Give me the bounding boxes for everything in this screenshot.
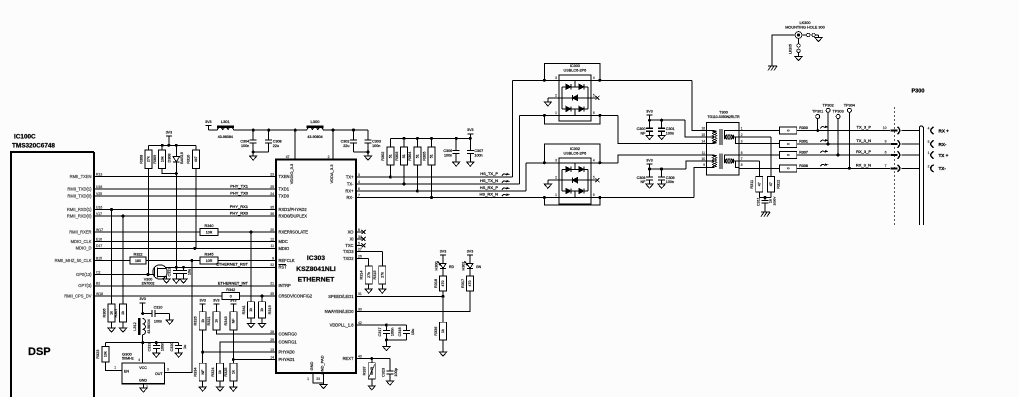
capacitor C317 100n — [378, 325, 395, 340]
svg-text:R301: R301 — [799, 140, 808, 144]
svg-text:35: 35 — [270, 205, 274, 209]
ground below GND_PAD — [320, 385, 327, 389]
svg-text:R311: R311 — [750, 180, 754, 189]
port arrow RX_3_N — [891, 165, 920, 172]
svg-text:32: 32 — [270, 263, 274, 267]
svg-text:C313: C313 — [168, 267, 172, 276]
svg-text:RMII_TXEN: RMII_TXEN — [70, 174, 92, 179]
svg-text:TXD0: TXD0 — [279, 193, 290, 198]
svg-text:10u: 10u — [411, 329, 415, 335]
port arrow RX_3_P — [891, 151, 920, 158]
port arrow TX_3_N — [891, 140, 920, 147]
resistor R309 10k — [153, 145, 166, 168]
svg-text:7: 7 — [741, 157, 743, 161]
svg-text:GND: GND — [139, 379, 147, 383]
svg-text:CONFIG1: CONFIG1 — [279, 339, 298, 344]
svg-text:ETHERNET_RST: ETHERNET_RST — [216, 261, 248, 266]
inductor L312 — [133, 318, 151, 344]
ground below C313 — [173, 279, 180, 283]
svg-text:51: 51 — [430, 154, 434, 158]
earth ground below C311 — [761, 212, 770, 217]
svg-text:27k: 27k — [367, 272, 371, 278]
svg-text:MDC: MDC — [279, 239, 288, 244]
wire R302 to TX+ — [389, 165, 392, 178]
svg-text:100n: 100n — [666, 131, 674, 135]
svg-text:10: 10 — [701, 157, 705, 161]
svg-text:R317: R317 — [461, 279, 465, 288]
svg-text:RMII_TXD(0): RMII_TXD(0) — [67, 193, 92, 198]
svg-text:SPEED/LED1: SPEED/LED1 — [328, 294, 354, 299]
resistor R314 27k — [360, 266, 373, 284]
wire R305 to RX- — [430, 165, 433, 199]
wire PHYAD0 row — [203, 351, 276, 353]
svg-text:MDIO: MDIO — [279, 246, 290, 251]
svg-text:RMII_MHZ_50_CLK: RMII_MHZ_50_CLK — [55, 258, 92, 263]
ground below C320 — [175, 353, 182, 357]
ground below G300 — [140, 388, 147, 392]
wire cap join + ground C302 C303 — [354, 151, 372, 161]
svg-text:1k: 1k — [260, 308, 264, 312]
wire G300 GND — [143, 384, 148, 389]
svg-text:21: 21 — [270, 282, 274, 286]
svg-text:47: 47 — [769, 182, 773, 186]
wire MDIO_D — [94, 247, 276, 250]
svg-text:10R: 10R — [206, 230, 213, 234]
svg-text:0: 0 — [786, 167, 790, 169]
LED H301 GN — [462, 261, 482, 271]
svg-text:R323: R323 — [96, 350, 100, 359]
svg-text:L300: L300 — [311, 119, 321, 124]
test point TP304 — [844, 103, 855, 168]
resistor R311 47 — [750, 177, 763, 193]
wire RX_N to T300 pin9 — [544, 167, 708, 197]
svg-text:470: 470 — [468, 280, 472, 286]
svg-text:R319: R319 — [268, 305, 272, 314]
svg-text:RX_3_N: RX_3_N — [856, 162, 871, 167]
svg-text:GN: GN — [476, 265, 482, 269]
svg-text:C311: C311 — [757, 197, 761, 206]
svg-text:36: 36 — [270, 212, 274, 216]
svg-text:C302: C302 — [341, 140, 350, 144]
svg-text:33: 33 — [316, 377, 320, 381]
capacitor C308 22u — [265, 130, 281, 152]
svg-text:VDDA_3.3: VDDA_3.3 — [329, 164, 334, 184]
svg-text:51: 51 — [416, 154, 420, 158]
wire RMII_RXER — [94, 231, 276, 234]
wire RX_P to T300 pin11 — [526, 155, 708, 163]
svg-text:43-98004: 43-98004 — [147, 319, 151, 333]
svg-text:5: 5 — [358, 241, 360, 245]
transistor V300 2N7002 — [142, 265, 168, 286]
svg-text:100n: 100n — [474, 153, 482, 157]
svg-text:26: 26 — [358, 254, 362, 258]
svg-text:TG110-S050N2RLTR: TG110-S050N2RLTR — [707, 115, 740, 119]
svg-text:100n: 100n — [372, 144, 380, 148]
capacitor C303 100n — [365, 130, 381, 152]
svg-text:E16: E16 — [96, 237, 102, 241]
wire PHYAD1 row — [233, 359, 276, 361]
svg-text:L301: L301 — [221, 119, 231, 124]
wire row RX_3_N — [797, 162, 890, 170]
svg-text:C300: C300 — [637, 127, 646, 131]
svg-text:2: 2 — [741, 133, 743, 137]
capacitor C308 NF — [637, 169, 653, 184]
svg-text:REFCLK: REFCLK — [279, 258, 295, 263]
svg-text:TXC: TXC — [345, 243, 353, 248]
svg-text:C303: C303 — [372, 140, 381, 144]
svg-text:C301: C301 — [666, 127, 675, 131]
wire T300 pin8 to R308 — [739, 167, 779, 168]
resistor R324 1k — [211, 363, 224, 381]
svg-text:1: 1 — [114, 366, 116, 370]
svg-text:TXEN: TXEN — [279, 174, 290, 179]
wire HS_TX_N — [356, 115, 520, 184]
svg-text:PHY_TX1: PHY_TX1 — [230, 184, 249, 189]
wire R303 to TX- — [403, 165, 406, 185]
svg-text:NF: NF — [640, 131, 646, 135]
svg-text:R322: R322 — [133, 253, 142, 257]
contact RX- — [928, 140, 947, 148]
wire NWAYEN/LED0 row — [356, 291, 470, 312]
svg-text:6: 6 — [593, 193, 595, 197]
svg-text:RXER/ISOLATE: RXER/ISOLATE — [279, 229, 309, 234]
svg-text:TXD2: TXD2 — [343, 256, 354, 261]
wire VDDA riser — [332, 130, 334, 160]
svg-text:R300: R300 — [799, 126, 808, 130]
svg-text:10u: 10u — [188, 269, 192, 275]
resistor R336 1k — [434, 296, 447, 340]
svg-text:C319: C319 — [148, 342, 152, 351]
svg-text:5: 5 — [593, 176, 595, 180]
svg-text:R302: R302 — [381, 152, 385, 161]
capacitor C320 1u — [170, 342, 187, 353]
svg-text:C307: C307 — [474, 149, 483, 153]
svg-text:5: 5 — [593, 93, 595, 97]
wire center tap rail top — [650, 119, 708, 137]
svg-text:C323: C323 — [381, 368, 385, 377]
svg-text:C310: C310 — [154, 306, 163, 310]
svg-text:TP302: TP302 — [823, 103, 834, 107]
svg-text:3V3: 3V3 — [166, 130, 172, 134]
wire G300 OUT to REFCLK net — [165, 261, 192, 373]
svg-text:3V3: 3V3 — [440, 249, 446, 253]
capacitor C319 100n — [148, 342, 165, 353]
ground below C308 — [646, 184, 653, 188]
svg-text:R308: R308 — [799, 164, 808, 168]
svg-text:35: 35 — [270, 292, 274, 296]
ground below C323 — [386, 381, 393, 385]
svg-text:14: 14 — [270, 355, 274, 359]
svg-text:6: 6 — [358, 187, 360, 191]
svg-text:B15: B15 — [96, 256, 102, 260]
svg-text:GP0(13): GP0(13) — [76, 272, 92, 277]
wire TXD3 to R315 — [356, 252, 382, 267]
svg-text:7: 7 — [885, 164, 887, 168]
svg-text:BAS16: BAS16 — [180, 152, 184, 164]
svg-text:4: 4 — [358, 180, 360, 184]
svg-text:R308: R308 — [139, 155, 143, 164]
ground below R341 — [247, 318, 254, 328]
svg-text:1k: 1k — [121, 311, 125, 315]
svg-text:27k: 27k — [147, 156, 151, 162]
ground below R324 — [216, 381, 223, 391]
resistor R334 NF — [194, 352, 207, 381]
svg-text:R336: R336 — [434, 327, 438, 336]
svg-text:TMS320C6748: TMS320C6748 — [12, 143, 55, 150]
svg-text:C308: C308 — [637, 176, 646, 180]
IC300 USBLC6-2P6 TVS array — [543, 63, 602, 124]
wire RMII_CPS_DV — [94, 295, 276, 298]
ground below C309 — [658, 184, 665, 188]
svg-text:3: 3 — [167, 368, 169, 372]
svg-text:TX-: TX- — [939, 166, 947, 171]
svg-text:1k: 1k — [441, 329, 445, 333]
svg-text:2000V: 2000V — [773, 197, 777, 206]
svg-text:50MHz: 50MHz — [122, 357, 134, 361]
svg-text:TX-: TX- — [347, 181, 354, 186]
resistor R337 6k49 — [363, 359, 376, 379]
wire R311 R312 join — [759, 192, 771, 200]
svg-text:11: 11 — [270, 244, 274, 248]
svg-text:11: 11 — [702, 151, 706, 155]
svg-text:100p: 100p — [394, 368, 398, 376]
wire R310 to MDIO — [195, 169, 197, 249]
resistor R340 — [200, 224, 218, 236]
test point TP302 — [823, 103, 834, 144]
svg-text:U18: U18 — [96, 185, 102, 189]
svg-text:1: 1 — [928, 151, 930, 155]
svg-text:27: 27 — [358, 247, 362, 251]
power 3V3 above R343 — [230, 299, 236, 312]
wire R309 jog — [162, 169, 178, 176]
resistor R321 1k — [207, 312, 220, 330]
svg-text:2: 2 — [555, 93, 557, 97]
svg-text:9: 9 — [703, 163, 705, 167]
svg-text:USBLC6-2P6: USBLC6-2P6 — [564, 68, 587, 72]
svg-text:43-98084: 43-98084 — [218, 135, 233, 139]
svg-text:1: 1 — [555, 111, 557, 115]
wire RMII_TXEN — [94, 176, 276, 178]
ground below R334 — [199, 381, 206, 391]
svg-text:RMII_RXER: RMII_RXER — [69, 229, 91, 234]
wire LK300 to chassis ground — [772, 35, 795, 66]
wire R321 to CONFIG0 — [216, 330, 276, 334]
wire termination rail — [390, 137, 470, 140]
wire CONFIG1 row — [220, 342, 276, 363]
svg-text:R312: R312 — [777, 180, 781, 189]
svg-text:PHY_TX0: PHY_TX0 — [230, 191, 249, 196]
svg-text:RX_3_P: RX_3_P — [856, 149, 871, 154]
svg-text:12: 12 — [270, 237, 274, 241]
svg-text:C317: C317 — [378, 327, 382, 336]
svg-text:3V3: 3V3 — [230, 299, 236, 303]
svg-text:0: 0 — [786, 143, 790, 145]
inductor L301 — [210, 119, 234, 139]
dashed boundary — [894, 107, 896, 225]
svg-text:4: 4 — [928, 127, 930, 131]
svg-text:XO: XO — [348, 229, 354, 234]
capacitor C302 22u — [341, 130, 357, 152]
svg-text:RX+: RX+ — [345, 188, 354, 193]
ground below R337 — [368, 379, 375, 390]
svg-text:4: 4 — [593, 76, 595, 80]
power 3V3 at L301 — [205, 120, 211, 130]
svg-text:100n: 100n — [444, 153, 452, 157]
svg-text:C304: C304 — [240, 140, 249, 144]
test point TP303 — [833, 110, 844, 156]
resistor R315 27k — [373, 266, 386, 284]
svg-text:PHY_RX0: PHY_RX0 — [230, 211, 249, 216]
svg-text:9: 9 — [885, 140, 887, 144]
wire row TX_3_P — [797, 125, 890, 133]
resistor R343 NF — [224, 312, 237, 330]
svg-text:REXT: REXT — [343, 356, 354, 361]
inductor L300 — [307, 119, 324, 139]
resistor R310 4k7 — [187, 145, 200, 168]
svg-text:14: 14 — [701, 139, 705, 143]
svg-text:42: 42 — [358, 321, 362, 325]
svg-text:R343: R343 — [224, 316, 228, 325]
wire R304 to RX+ — [416, 165, 419, 192]
svg-text:CONFIG0: CONFIG0 — [279, 332, 298, 337]
ground below LK304 — [815, 38, 822, 42]
port arrow TX_3_P — [891, 127, 920, 134]
contact TX- — [928, 164, 947, 172]
svg-text:R310: R310 — [187, 155, 191, 164]
svg-text:PHY_RX1: PHY_RX1 — [230, 204, 249, 209]
svg-text:29: 29 — [270, 338, 274, 342]
svg-text:16: 16 — [701, 126, 705, 130]
wire oscillator supply rail — [105, 341, 178, 344]
wire VDDPLL_1.8 — [356, 324, 407, 327]
wire T300 pin3 to R301 — [739, 143, 779, 146]
svg-text:TX+: TX+ — [346, 174, 354, 179]
svg-text:31: 31 — [358, 292, 362, 296]
svg-text:R305: R305 — [422, 152, 426, 161]
svg-text:RXD0/DUPLEX: RXD0/DUPLEX — [279, 213, 308, 218]
wire R343 to PHYAD1 row — [232, 330, 235, 361]
svg-text:W17: W17 — [96, 228, 103, 232]
svg-text:51: 51 — [389, 154, 393, 158]
wire row TX_3_N — [797, 138, 890, 146]
svg-text:RXD1/PHYAD2: RXD1/PHYAD2 — [279, 207, 308, 212]
svg-text:1k: 1k — [249, 308, 253, 312]
svg-text:8: 8 — [358, 228, 360, 232]
resistor R325 1k — [224, 360, 237, 382]
svg-text:P300: P300 — [911, 89, 924, 95]
wire R326 to PHYAD0 row — [201, 330, 204, 354]
wire GP0(13) to V300 gate — [94, 273, 154, 276]
svg-text:B2: B2 — [96, 282, 100, 286]
svg-text:10k: 10k — [104, 351, 108, 357]
svg-text:3V3: 3V3 — [646, 158, 652, 162]
link LK305 down — [789, 38, 801, 56]
svg-text:GND_PAD: GND_PAD — [320, 355, 325, 374]
svg-text:40: 40 — [358, 354, 362, 358]
wire HS_RX_P — [356, 163, 526, 191]
svg-text:R340: R340 — [204, 224, 213, 228]
svg-text:3V3: 3V3 — [205, 120, 211, 124]
resistor R303 51 — [395, 138, 408, 165]
svg-text:TP301: TP301 — [812, 110, 823, 114]
capacitor C300 NF — [637, 120, 653, 135]
svg-text:1u: 1u — [183, 345, 187, 349]
svg-text:IC303: IC303 — [307, 255, 325, 262]
ground below R319 — [258, 318, 265, 328]
svg-text:100n: 100n — [241, 144, 249, 148]
resistor R323 10k — [96, 343, 109, 362]
svg-text:1k: 1k — [218, 370, 222, 374]
svg-text:27k: 27k — [381, 272, 385, 278]
svg-text:2: 2 — [928, 164, 930, 168]
svg-text:24: 24 — [270, 192, 274, 196]
DSP pin names and numbers — [55, 172, 103, 298]
svg-text:TP304: TP304 — [844, 103, 855, 107]
svg-text:R303: R303 — [395, 152, 399, 161]
svg-text:H300: H300 — [435, 261, 439, 270]
wire R323 to EN — [105, 362, 122, 371]
svg-text:R337: R337 — [363, 366, 367, 375]
svg-text:47: 47 — [286, 155, 290, 159]
svg-text:25: 25 — [270, 185, 274, 189]
svg-text:TXD3: TXD3 — [343, 249, 354, 254]
svg-text:2N7002: 2N7002 — [142, 281, 155, 285]
power 3V3 at C300 C301 — [646, 110, 652, 122]
svg-text:RD: RD — [449, 265, 454, 269]
svg-text:OUT: OUT — [155, 372, 163, 376]
svg-text:L312: L312 — [133, 322, 137, 330]
svg-text:R306: R306 — [102, 308, 106, 317]
svg-text:IC100C: IC100C — [14, 134, 36, 141]
svg-text:R304: R304 — [408, 152, 412, 161]
svg-text:3: 3 — [358, 173, 360, 177]
wire T300 pin7 to R311 — [739, 161, 759, 177]
svg-text:C308: C308 — [273, 140, 282, 144]
transformer T300 TG110-S050N2RLTR — [701, 111, 742, 176]
wire R308 to V300 gate — [148, 169, 150, 275]
svg-text:C2: C2 — [96, 270, 100, 274]
wire RMII_RXD0 / net PHY_RX0 — [94, 211, 276, 218]
svg-text:3V3: 3V3 — [139, 297, 145, 301]
ground below V300 source — [163, 279, 170, 283]
svg-text:4: 4 — [138, 358, 140, 362]
wire TX_P to T300 pin16 — [512, 80, 708, 130]
svg-text:D17: D17 — [96, 244, 102, 248]
svg-text:3V3: 3V3 — [213, 299, 219, 303]
wire T300 pin1 to R300 — [739, 130, 779, 132]
mounting hole LK300 — [785, 21, 824, 38]
resistor R341 1k — [242, 232, 255, 318]
svg-text:R314: R314 — [360, 270, 364, 279]
wire row RX_3_P — [797, 149, 890, 157]
svg-text:C309: C309 — [666, 176, 675, 180]
svg-text:3V3: 3V3 — [467, 128, 473, 132]
svg-text:R324: R324 — [211, 368, 215, 377]
ground below R306 — [108, 322, 115, 332]
svg-text:23: 23 — [270, 172, 274, 176]
svg-text:100n: 100n — [391, 328, 395, 336]
wire RMII_TXD1 / net PHY_TX1 — [94, 184, 276, 190]
power 3V3 above R326 — [199, 299, 205, 312]
svg-text:6: 6 — [885, 151, 887, 155]
svg-text:GND: GND — [309, 361, 314, 370]
ground below C301 — [658, 135, 665, 139]
oscillator G300 50MHz box — [122, 343, 165, 384]
resistor R318 470 — [434, 271, 447, 291]
svg-text:0: 0 — [786, 129, 790, 131]
power 3V3 above H300 — [440, 249, 446, 261]
resistor R307 1k — [114, 216, 127, 322]
